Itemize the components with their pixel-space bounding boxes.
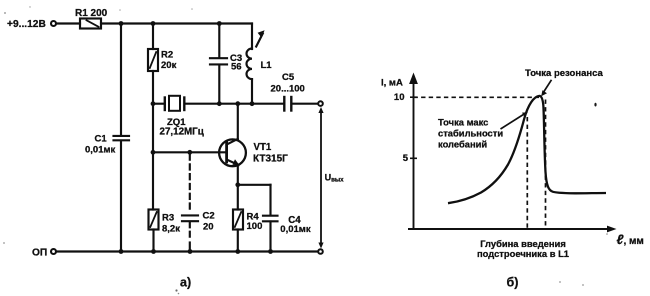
node junction bottom rail R4 [235,249,240,254]
node OP terminal [51,249,56,254]
wire emitter junction to C4 column [238,184,271,186]
svg-text:R3: R3 [162,213,174,224]
wire ZQ1 to C5 [186,103,284,105]
svg-text:Точка макс: Точка макс [438,117,488,128]
capacitor C1 [114,135,130,137]
svg-text:а): а) [180,276,191,290]
graph tick 10 [410,96,417,98]
node junction bottom rail C4 [268,249,273,254]
graph tick 5 [410,157,417,159]
resistor R1 [80,19,101,29]
svg-text:стабильности: стабильности [438,128,503,139]
svg-text:0,01мк: 0,01мк [280,224,311,235]
svg-text:20к: 20к [161,60,177,71]
scan speck [191,8,193,10]
wire emitter junction to R4 [237,185,239,210]
svg-text:8,2к: 8,2к [162,223,180,234]
svg-text:0,01мк: 0,01мк [85,145,116,156]
graph b [408,73,617,233]
graph dashed level 10 [414,96,540,98]
capacitor C2 dashed wire upper [189,155,191,213]
scan speck [4,12,6,14]
wire Uout arrow line [320,111,322,246]
capacitor C5 [283,97,285,111]
capacitor C2 [182,214,198,216]
svg-text:10: 10 [394,92,405,103]
resistor R4 [233,210,243,230]
svg-text:I, мА: I, мА [381,78,403,89]
wire input terminal to R1 [57,22,80,24]
svg-text:подстроечника в L1: подстроечника в L1 [477,248,569,259]
scan speck [582,284,584,286]
svg-text:колебаний: колебаний [438,138,487,149]
node junction ZQ1 wire L1 [250,101,255,106]
node output terminal bottom [318,249,323,254]
node output terminal top [318,101,323,106]
wire L1 column upper [251,24,253,50]
svg-text:L1: L1 [261,60,273,71]
node junction ZQ1 wire C3 [217,101,222,106]
svg-text:C2: C2 [203,211,215,222]
capacitor C3 [210,57,227,59]
svg-text:27,12МГц: 27,12МГц [160,127,204,138]
scan speck [3,242,5,244]
svg-text:R2: R2 [161,50,173,61]
svg-text:100: 100 [247,221,263,232]
svg-text:5: 5 [403,153,409,164]
node junction bottom rail C2 [188,249,193,254]
wire emitter down [237,165,239,185]
node junction top rail R2 [151,21,156,26]
resistor R3 [149,210,159,230]
wire top rail [101,22,252,24]
scan speck [119,9,121,11]
wire C3 column lower [218,65,220,104]
node junction base wire left [151,150,156,155]
scan speck [606,233,608,235]
transistor VT1 [219,139,246,166]
wire collector to ZQ1 wire [237,104,239,139]
wire R2 column upper [152,24,154,50]
node junction bottom rail C1 [119,249,124,254]
wire base column to R3 [152,152,154,209]
wire R2 column to base wire [152,104,154,153]
svg-text:ℓ, мм: ℓ, мм [617,232,644,247]
wire C3 column upper [218,24,220,58]
scan speck [175,289,177,291]
wire bottom rail [57,250,318,252]
scan speck [29,6,30,7]
graph leader resonance [543,80,552,93]
graph dashed vertical resonance [545,100,547,229]
wire C1 column lower [120,142,122,252]
graph X axis [408,228,608,230]
wire C5 to output terminal [293,103,318,105]
wire C4 column upper [269,185,271,215]
svg-text:Точка резонанса: Точка резонанса [525,68,603,79]
svg-text:R1 200: R1 200 [75,8,108,19]
svg-text:Uвых: Uвых [325,173,345,184]
node junction bottom rail R3 [151,249,156,254]
svg-text:C1: C1 [95,133,108,144]
resistor R2 [148,49,158,71]
graph curve [448,96,606,203]
node junction top rail C3 [217,21,222,26]
node junction emitter [235,182,240,187]
wire base [153,151,227,153]
inductor L1 [247,49,252,80]
L1 trimmer arrow [256,34,263,47]
node junction ZQ1 wire left [151,101,156,106]
scan speck [594,103,596,107]
scan speck [559,281,561,283]
wire L1 to ZQ1 wire [251,79,253,104]
wire C4 to bottom rail [269,222,271,252]
svg-text:56: 56 [231,62,242,73]
svg-text:+9...12В: +9...12В [7,19,46,30]
wire C1 column upper [120,24,122,136]
node junction top rail C1 [119,21,124,26]
svg-text:C5: C5 [282,72,295,83]
svg-text:ОП: ОП [32,247,47,258]
scan speck [178,293,180,295]
svg-text:20...100: 20...100 [271,84,305,95]
graph Y axis [413,80,415,229]
capacitor C4 [263,215,278,217]
graph dashed vertical stability [526,117,528,229]
wire R3 to bottom rail [152,230,154,252]
svg-text:20: 20 [203,222,214,233]
svg-text:КТ315Г: КТ315Г [253,154,288,165]
graph leader stability [501,114,526,130]
wire C2 to bottom rail [189,243,191,252]
wire ZQ1 wire left segment [153,103,164,105]
wire R4 to bottom rail [237,230,239,252]
svg-text:б): б) [507,276,519,290]
node +9...12V input terminal [51,21,56,26]
crystal ZQ1 [164,98,166,111]
node junction base wire C2 [187,150,192,155]
wire R2 to ZQ1 wire [152,71,154,104]
wire C2 to bottom rail dashed [189,222,191,240]
node junction ZQ1 wire collector [235,101,240,106]
svg-text:VT1: VT1 [254,142,272,153]
